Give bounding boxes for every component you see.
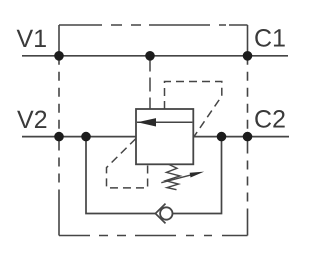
- adjustment arrow shaft across spring: [161, 175, 191, 183]
- boundary bottom dashed line: [59, 235, 248, 237]
- pilot dashed line from V1 node to valve top: [149, 58, 151, 110]
- boundary left dashed vertical upper: [58, 56, 60, 137]
- node V1-pilot junction dot: [145, 51, 155, 61]
- boundary right dashed vertical upper: [247, 56, 249, 137]
- boundary top dashed line: [59, 24, 248, 26]
- node C1 junction dot: [243, 51, 253, 61]
- node C2 junction dot: [243, 132, 253, 142]
- port label C2: [255, 110, 284, 128]
- node V1-left junction dot: [54, 51, 64, 61]
- check valve seat chevron: [155, 204, 165, 224]
- wire top-right corner riser: [247, 25, 249, 56]
- wire check valve to C2 node: [173, 137, 222, 214]
- valve body square: [136, 109, 193, 164]
- node V2-checkvalve junction dot: [81, 132, 91, 142]
- flow arrowhead pointing left: [137, 118, 156, 126]
- pilot dashed loop right (valve top to C2 port): [165, 82, 222, 137]
- wire V2 node down to check valve: [86, 137, 155, 214]
- flow path line inside valve: [137, 121, 193, 123]
- adjustment arrowhead: [190, 172, 205, 178]
- boundary right dashed vertical lower: [247, 137, 249, 236]
- port label V2: [17, 111, 46, 128]
- node V2-left junction dot: [54, 132, 64, 142]
- port label C1: [255, 29, 284, 47]
- node C2-checkvalve junction dot: [217, 132, 227, 142]
- wire top-left corner riser: [58, 25, 60, 56]
- check valve ball circle: [160, 207, 172, 219]
- boundary left dashed vertical lower: [58, 137, 60, 236]
- spring (zigzag) below valve: [166, 164, 181, 189]
- pilot dashed loop left (V2 port to spring chamber): [107, 139, 148, 188]
- port label V1: [17, 30, 46, 47]
- wire C2 line right of valve: [193, 136, 289, 138]
- wire V1-C1 main line: [22, 55, 288, 57]
- wire V2 line left of valve: [22, 136, 137, 138]
